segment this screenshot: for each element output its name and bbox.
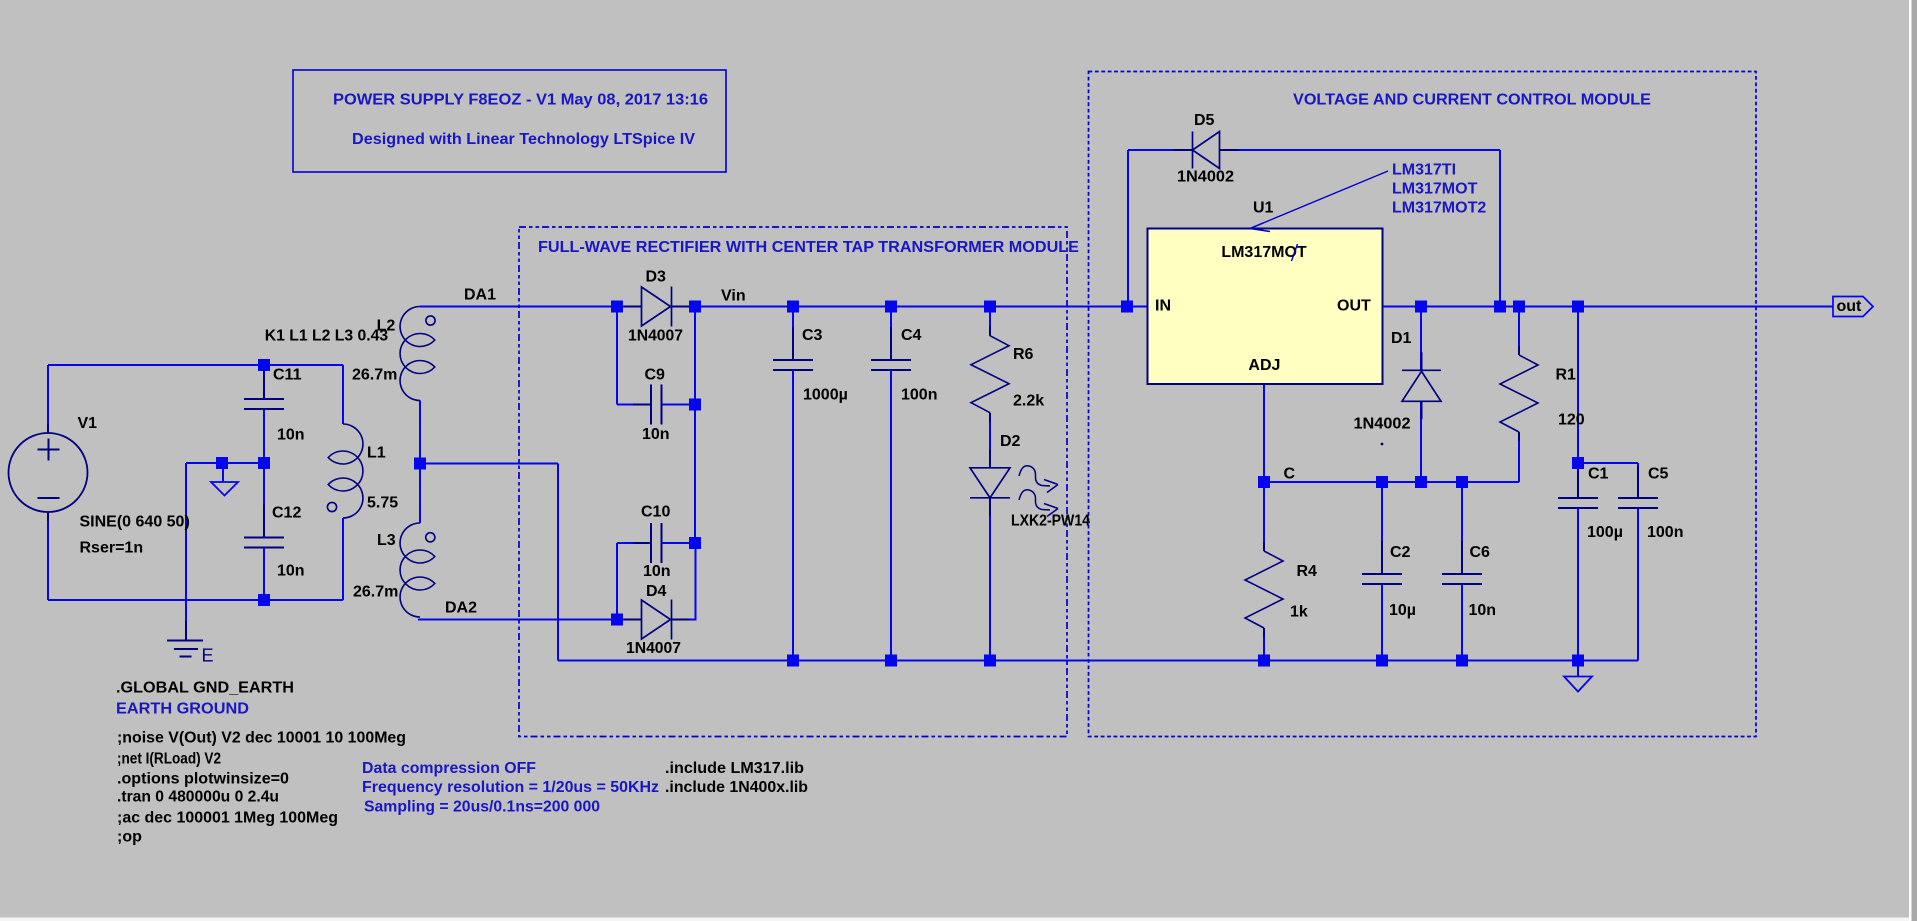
wire C1 feed (1577, 307, 1579, 465)
junction C3 bottom (787, 655, 799, 667)
svg-text:C12: C12 (272, 505, 301, 522)
svg-text:100n: 100n (1647, 524, 1683, 541)
svg-text:C11: C11 (273, 367, 302, 384)
junction D1 bottom (1415, 476, 1427, 488)
junction R4 bottom (1258, 655, 1270, 667)
svg-text:C2: C2 (1390, 544, 1411, 561)
svg-text:LM317MOT2: LM317MOT2 (1392, 200, 1486, 217)
junction center tap (414, 458, 426, 470)
diode D3 (624, 306, 642, 308)
wire R6 top (989, 307, 991, 336)
LED D2 (989, 450, 991, 468)
regulator U1 LM317 box (1148, 229, 1383, 385)
svg-text:DA2: DA2 (445, 600, 477, 617)
voltage source V1 (9, 433, 88, 512)
svg-text:1N4007: 1N4007 (626, 640, 681, 657)
inductor L3 (400, 523, 435, 617)
svg-text:1N4002: 1N4002 (1177, 169, 1234, 186)
svg-text:120: 120 (1558, 412, 1585, 429)
capacitor C1 (1577, 464, 1579, 498)
wire V1 bottom (47, 520, 49, 600)
wire D2 bottom (989, 497, 991, 660)
junction ADJ-C (1258, 476, 1270, 488)
junction R1 top (1513, 301, 1525, 313)
resistor R4 (1263, 542, 1265, 551)
wire center tap to right (420, 463, 558, 465)
wire ADJ leg (1263, 384, 1265, 482)
resistor R1 (1518, 346, 1520, 355)
svg-text:LXK2-PW14: LXK2-PW14 (1011, 513, 1090, 530)
junction D5 return (1494, 301, 1506, 313)
svg-text:;op: ;op (117, 829, 142, 846)
wire C9 left leg (616, 307, 618, 405)
svg-text:Frequency resolution = 1/20us: Frequency resolution = 1/20us = 50KHz (362, 779, 659, 796)
diode D5 (1174, 149, 1193, 151)
wire R4 bottom (1263, 631, 1265, 661)
diode D1 (1421, 352, 1423, 370)
svg-text:D2: D2 (1000, 433, 1021, 450)
L2 phase dot (426, 316, 435, 325)
svg-text:L2: L2 (377, 318, 396, 335)
capacitor C10 (617, 542, 651, 544)
svg-text:Data compression OFF: Data compression OFF (362, 760, 536, 777)
capacitor C3 (792, 307, 794, 361)
wire earth feed (185, 463, 187, 624)
svg-text:C1: C1 (1588, 466, 1609, 483)
svg-text:OUT: OUT (1337, 298, 1371, 315)
svg-text:1000µ: 1000µ (803, 387, 848, 404)
L3 phase dot (426, 533, 435, 542)
wire D1 top (1420, 307, 1422, 371)
svg-text:Rser=1n: Rser=1n (80, 540, 144, 557)
wire C5 bottom elbow (1637, 528, 1639, 661)
capacitor C5 (1637, 466, 1639, 498)
wire center tap drop (557, 464, 559, 661)
voltage module box (1089, 72, 1757, 737)
svg-text:L1: L1 (367, 445, 386, 462)
junction C3 top (787, 301, 799, 313)
svg-text:C6: C6 (1470, 544, 1491, 561)
svg-text:.include LM317.lib: .include LM317.lib (665, 760, 804, 777)
ground symbol left (222, 463, 224, 482)
svg-text:10n: 10n (642, 426, 670, 443)
wire D5 right branch (1220, 149, 1500, 151)
svg-text:Vin: Vin (721, 288, 746, 305)
svg-text:SINE(0 640 50): SINE(0 640 50) (80, 514, 190, 531)
junction C6 top (1456, 476, 1468, 488)
svg-text:VOLTAGE AND CURRENT CONTROL MO: VOLTAGE AND CURRENT CONTROL MODULE (1293, 92, 1651, 109)
svg-text:ADJ: ADJ (1248, 357, 1280, 374)
svg-text:U1: U1 (1253, 200, 1274, 217)
wire D5 left branch (1128, 149, 1193, 151)
wire R6-D2 link (989, 416, 991, 468)
svg-text:1k: 1k (1290, 604, 1308, 621)
U1 leader arrow (1250, 171, 1388, 229)
junction C2 top (1376, 476, 1388, 488)
svg-text:10n: 10n (277, 427, 305, 444)
svg-text:V1: V1 (78, 415, 98, 432)
U1 stray tick (1292, 244, 1298, 261)
svg-text:1N4007: 1N4007 (628, 328, 683, 345)
wire Vin rail (672, 306, 1148, 308)
capacitor C2 (1381, 482, 1383, 574)
svg-text:26.7m: 26.7m (352, 367, 397, 384)
svg-text:LM317MOT: LM317MOT (1392, 181, 1478, 198)
junction D4 anode (611, 614, 623, 626)
svg-text:Sampling = 20us/0.1ns=200 000: Sampling = 20us/0.1ns=200 000 (364, 799, 600, 816)
svg-text:C: C (1284, 466, 1296, 483)
svg-text:IN: IN (1155, 298, 1171, 315)
svg-text:5.75: 5.75 (367, 495, 398, 512)
svg-text:D5: D5 (1194, 112, 1215, 129)
capacitor C6 (1461, 482, 1463, 574)
wire Vin column (694, 307, 696, 544)
wire D1 bottom (1420, 402, 1422, 482)
svg-text:.include 1N400x.lib: .include 1N400x.lib (665, 779, 808, 796)
wire D4 cathode elbow (672, 619, 696, 621)
junction C2 bottom (1376, 655, 1388, 667)
svg-text:out: out (1837, 298, 1863, 315)
capacitor C9 (617, 404, 651, 406)
svg-text:FULL-WAVE RECTIFIER WITH CENTE: FULL-WAVE RECTIFIER WITH CENTER TAP TRAN… (538, 239, 1079, 256)
svg-text:10µ: 10µ (1389, 602, 1416, 619)
svg-text:.options plotwinsize=0: .options plotwinsize=0 (117, 771, 289, 788)
svg-text:100n: 100n (901, 387, 937, 404)
junction R6 top (984, 301, 996, 313)
svg-text:LM317TI: LM317TI (1392, 162, 1456, 179)
wire top-left rail (48, 364, 343, 366)
svg-text:C10: C10 (641, 504, 670, 521)
wire DA2 rail (418, 619, 642, 621)
svg-text:.tran 0 480000u 0 2.4u: .tran 0 480000u 0 2.4u (117, 789, 279, 806)
svg-text:EARTH GROUND: EARTH GROUND (116, 701, 249, 718)
svg-text:C9: C9 (645, 367, 666, 384)
inductor L2 (400, 307, 435, 401)
junction IN (1121, 301, 1133, 313)
diode D4 (624, 619, 642, 621)
svg-text:;ac dec 100001 1Meg 100Meg: ;ac dec 100001 1Meg 100Meg (117, 810, 338, 827)
svg-text:C5: C5 (1648, 466, 1669, 483)
rectifier module box (519, 227, 1067, 737)
wire C row (1264, 481, 1519, 483)
D2 light arrows (1019, 466, 1050, 486)
wire L1 top feed (342, 365, 344, 424)
svg-text:K1 L1 L2 L3 0.43: K1 L1 L2 L3 0.43 (265, 328, 389, 345)
wire bottom rail (558, 660, 1578, 662)
svg-text:R1: R1 (1556, 367, 1577, 384)
junction C1-C5 top (1572, 457, 1584, 469)
junction gnd node (1572, 655, 1584, 667)
ground symbol right (1577, 661, 1579, 677)
wire V1 top (47, 365, 49, 424)
junction D1 top (1415, 301, 1427, 313)
svg-text:C4: C4 (901, 327, 922, 344)
wire R1 bottom (1518, 435, 1520, 482)
svg-text:;net I(RLoad) V2: ;net I(RLoad) V2 (117, 751, 221, 768)
capacitor C11 (263, 365, 265, 399)
svg-text:.GLOBAL GND_EARTH: .GLOBAL GND_EARTH (116, 680, 294, 697)
svg-text:2.2k: 2.2k (1013, 393, 1044, 410)
output port flag out (1833, 297, 1873, 317)
junction top-left (258, 359, 270, 371)
junction D2 bottom (984, 655, 996, 667)
svg-text:10n: 10n (643, 563, 671, 580)
junction C4 top (885, 301, 897, 313)
wire gnd row (186, 462, 264, 464)
wire OUT rail (1383, 306, 1833, 308)
svg-text:POWER SUPPLY F8EOZ - V1 May 0: POWER SUPPLY F8EOZ - V1 May 08, 2017 13:… (333, 92, 708, 109)
wire C5 top elbow (1578, 462, 1638, 464)
svg-text:;noise V(Out) V2 dec 10001 10: ;noise V(Out) V2 dec 10001 10 100Meg (117, 730, 406, 747)
junction bottom-left (258, 594, 270, 606)
svg-text:10n: 10n (1469, 602, 1497, 619)
svg-text:DA1: DA1 (464, 287, 496, 304)
junction C6 bottom (1456, 655, 1468, 667)
wire DA1 rail (420, 306, 642, 308)
svg-text:R4: R4 (1297, 563, 1318, 580)
stray dot (1381, 443, 1384, 446)
svg-text:1N4002: 1N4002 (1354, 416, 1411, 433)
wire L2 bottom to center tap (419, 401, 421, 524)
junction gnd tap (216, 457, 228, 469)
junction C1 branch (1572, 301, 1584, 313)
capacitor C12 (263, 463, 265, 538)
svg-text:C3: C3 (802, 327, 823, 344)
junction D3 anode (611, 301, 623, 313)
svg-text:D4: D4 (646, 583, 667, 600)
wire R4 top (1263, 482, 1265, 551)
inductor L1 (328, 424, 363, 518)
junction C11-C12 (258, 457, 270, 469)
svg-text:26.7m: 26.7m (353, 584, 398, 601)
wire L1 bottom feed (342, 518, 344, 600)
junction C9 right (689, 399, 701, 411)
svg-text:D1: D1 (1391, 330, 1412, 347)
junction C10 right (689, 537, 701, 549)
svg-text:10n: 10n (277, 563, 305, 580)
wire C10 left leg (616, 543, 618, 620)
svg-text:E: E (202, 646, 214, 666)
wire bottom-left rail (48, 599, 343, 601)
capacitor C4 (890, 307, 892, 361)
svg-text:Designed with Linear Technolog: Designed with Linear Technology LTSpice … (352, 131, 695, 148)
svg-text:D3: D3 (646, 269, 667, 286)
svg-text:R6: R6 (1013, 346, 1034, 363)
svg-text:100µ: 100µ (1587, 524, 1623, 541)
earth ground symbol E (185, 621, 187, 640)
title box (293, 70, 726, 172)
resistor R6 (989, 327, 991, 336)
L1 phase dot (327, 502, 336, 511)
junction C4 bottom (885, 655, 897, 667)
window edge strips (1909, 0, 1912, 921)
junction Vin (689, 301, 701, 313)
wire R1 top (1518, 307, 1520, 356)
svg-text:L3: L3 (377, 532, 396, 549)
